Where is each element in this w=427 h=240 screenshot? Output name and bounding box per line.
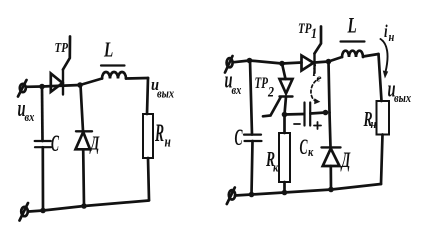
label Rn [154,120,171,150]
node K (diode bottom junction) [328,187,334,193]
svg-text:2: 2 [267,83,274,99]
node L2 (Rk bottom junction) [282,190,288,196]
wire diode down to node D [82,149,86,206]
svg-text:вых: вых [394,91,411,105]
node H (Ck left junction) [282,112,288,118]
svg-text:ТР: ТР [255,74,269,91]
node A (C branch junction, top) [39,84,45,90]
label u_vyh (output voltage) [151,76,174,101]
wire node B to inductor [80,79,102,86]
wire inductor to top-right corner [363,54,379,57]
label Ck [300,134,314,159]
label Rn (right) [363,107,377,131]
svg-text:вх: вх [232,83,242,97]
diode D (freewheeling) [76,131,93,149]
node F (TP2 branch junction, top) [279,61,285,67]
svg-text:C: C [235,125,243,150]
node M (C bottom junction) [249,192,255,198]
wire node F down to thyristor TP2 [282,64,286,80]
svg-text:1: 1 [311,25,317,41]
svg-text:L: L [103,38,113,62]
label L (right) [347,14,357,39]
svg-text:вых: вых [157,87,174,101]
label D (right) [340,147,351,171]
inductor L (right) [341,42,365,58]
wire load to bottom-right corner [381,135,383,185]
label C (right) [235,125,243,150]
wire capacitor down to node C2 [41,147,44,210]
wire node E down to capacitor C [250,61,252,135]
label minus (Ck polarity) [294,123,300,125]
svg-text:к: к [308,146,314,159]
svg-text:к: к [273,162,279,175]
svg-text:C: C [51,131,59,156]
node J (Ck right junction) [323,110,329,116]
svg-text:вх: вх [25,110,35,124]
wire inductor to top-right corner [126,77,148,80]
current arrow i_n [381,39,389,79]
wire right side down to load [147,78,148,114]
capacitor Ck (commutation) [305,103,311,126]
capacitor C (right) [244,135,262,141]
label TP2 [255,74,275,100]
wire node H down to resistor Rk [283,115,286,134]
terminal input top-right circuit [225,56,233,73]
label i_n [384,22,395,44]
node E (C branch junction, top) [247,58,253,64]
label u_vyh (right) [388,76,412,105]
wire diode down to node K [329,166,332,190]
label u_vx (input voltage, right) [225,67,242,97]
wire load to bottom-right corner [148,158,149,200]
svg-text:с: с [317,73,322,85]
wire TP1 cathode to node G [315,62,329,63]
svg-text:С: С [300,134,309,159]
resistor Rk [279,133,290,182]
wire Ck to node J [311,113,326,114]
svg-text:Д: Д [89,132,100,154]
svg-text:н: н [389,30,395,44]
label TP [55,40,69,55]
inductor L [101,66,126,79]
wire terminal to node E [233,61,250,63]
wire Rk down to node L2 [283,182,286,193]
label Rk [265,147,278,175]
node B (diode branch junction, top) [77,82,83,88]
svg-text:ТР: ТР [55,40,69,55]
label L [103,38,113,62]
thyristor TP [51,37,70,95]
bottom wire [29,201,149,212]
label D [89,132,100,154]
label i_c [313,63,322,85]
node C2 (C branch junction, bottom) [40,208,46,214]
wire node A down to capacitor [41,87,44,142]
wire TP2 cathode down to node H [285,97,287,115]
wire corner down to load [379,54,382,101]
wire node G down to node J [329,62,330,113]
thyristor TP1 [302,27,322,74]
terminal input top-left [18,80,27,97]
svg-text:н: н [371,118,377,131]
terminal input bottom-left [20,203,29,221]
wire node G to inductor [329,57,343,62]
svg-text:Д: Д [340,147,351,171]
capacitor C [35,141,51,147]
svg-text:L: L [347,14,357,39]
wire terminal to node A [26,85,42,88]
wire node H to capacitor Ck [285,113,305,116]
wire node B down to diode [81,85,84,131]
wire node A through thyristor to node B [42,85,80,87]
node G (commutation branch junction, top) [326,59,332,65]
bottom wire (right circuit) [235,184,381,196]
diode D (right) [322,147,341,166]
wire capacitor C down to node M [252,141,253,195]
label TP1 [298,19,317,41]
wire node E to node F [250,61,283,64]
svg-text:н: н [165,133,171,150]
resistor Rn (right load) [377,101,390,135]
svg-text:R: R [154,120,164,147]
node D (diode branch junction, bottom) [81,203,87,209]
label C [51,131,59,156]
wire node F to thyristor TP1 [282,63,302,64]
resistor Rn (load) [143,114,153,158]
label u_vx (input voltage) [18,95,35,124]
dashed commutation current arrow i_c [311,78,321,104]
wire node J down to diode [330,113,331,148]
terminal bottom (right circuit) [227,188,235,205]
label plus (Ck polarity) [314,122,321,129]
thyristor TP2 (pointing down) [263,79,293,116]
